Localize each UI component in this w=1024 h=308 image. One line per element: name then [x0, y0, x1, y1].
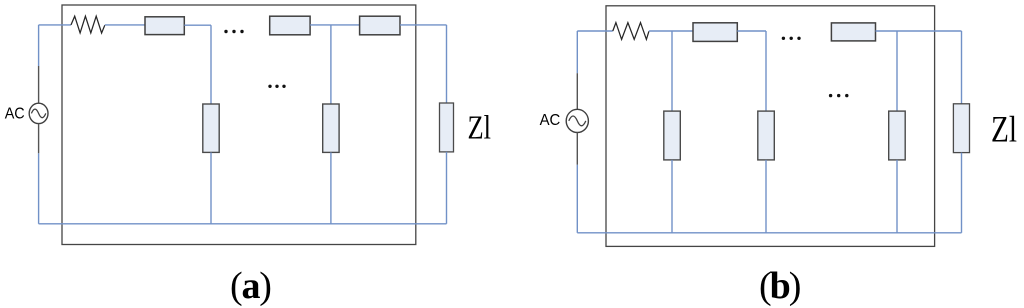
shunt impedance Zs5 (b): [889, 111, 906, 160]
svg-text:(b): (b): [759, 265, 800, 307]
wire: block Z4 to node 2 (b): [737, 30, 766, 32]
wire: load to bottom rail (b): [961, 153, 963, 233]
series impedance Z4 (b): [693, 23, 737, 42]
wire: left vertical top segment (b): [576, 31, 578, 73]
wire: bottom rail (a): [39, 223, 447, 225]
AC source V2 lead lower (b): [576, 133, 578, 165]
load Zl rectangle (b): [953, 104, 969, 153]
shunt impedance Zs4 (b): [758, 111, 775, 160]
wire: block Z1 to node 1 (a): [184, 24, 211, 26]
AC source V1 circle (a): [29, 103, 48, 123]
wire: shunt Zs1 to bottom rail (a): [210, 152, 212, 223]
wire: shunt Zs5 to bottom rail (b): [896, 160, 898, 233]
svg-text:Zl: Zl: [991, 109, 1017, 150]
AC source V2 sine wave (b): [569, 116, 586, 126]
series impedance Z2 (a): [270, 16, 310, 35]
wire: node 1 down to shunt Zs3 (b): [671, 31, 673, 111]
wire: top rail from source to resistor (b): [577, 30, 613, 32]
wire: right vertical to load (b): [961, 31, 963, 104]
ellipsis dots middle (b): [829, 94, 849, 97]
outer box (a): [62, 5, 416, 245]
AC source V1 lead lower (a): [38, 124, 40, 154]
wire: block Z2 through node 2 to block Z3 (a): [310, 24, 360, 26]
ellipsis dots top (a): [224, 30, 243, 33]
series impedance Z3 (a): [360, 16, 400, 35]
wire: node 3 down to shunt Zs5 (b): [896, 31, 898, 111]
wire: left vertical bottom segment (b): [576, 165, 578, 233]
AC source V1 sine wave (a): [31, 109, 45, 118]
wire: top rail from source to resistor (a): [39, 24, 71, 26]
series impedance Z1 (a): [145, 17, 184, 35]
wire: load to bottom rail (a): [446, 152, 448, 224]
wire: node 2 down to shunt Zs4 (b): [765, 31, 767, 111]
svg-text:(a): (a): [230, 265, 271, 307]
AC source V2 lead upper (b): [576, 73, 578, 109]
wire: resistor to block Z1 (a): [105, 24, 145, 26]
svg-text:Zl: Zl: [468, 109, 492, 146]
AC source V1 lead upper (a): [38, 66, 40, 103]
wire: shunt Zs2 to bottom rail (a): [330, 152, 332, 223]
wire: resistor through node 1 to block Z4 (b): [649, 30, 693, 32]
wire: right vertical to load (a): [446, 25, 448, 103]
wire: node 2 down to shunt Zs2 (a): [330, 25, 332, 104]
resistor R2 zigzag (b): [613, 23, 649, 40]
wire: shunt Zs4 to bottom rail (b): [765, 160, 767, 233]
shunt impedance Zs1 (a): [203, 104, 219, 152]
shunt impedance Zs2 (a): [323, 104, 339, 152]
wire: bottom rail (b): [577, 232, 961, 234]
wire: shunt Zs3 to bottom rail (b): [671, 160, 673, 233]
shunt impedance Zs3 (b): [664, 111, 681, 160]
resistor R1 zigzag (a): [71, 16, 105, 33]
wire: block Z3 to top-right corner (a): [400, 24, 447, 26]
AC source V2 circle (b): [566, 109, 588, 132]
wire: node 1 down to shunt Zs1 (a): [210, 25, 212, 104]
svg-text:AC: AC: [5, 105, 25, 122]
ellipsis dots top (b): [782, 37, 801, 40]
wire: left vertical bottom segment (a): [38, 153, 40, 224]
wire: left vertical top segment (a): [38, 25, 40, 66]
outer box (b): [606, 6, 935, 247]
svg-text:AC: AC: [540, 112, 561, 129]
series impedance Z5 (b): [831, 23, 875, 41]
load Zl rectangle (a): [440, 103, 454, 152]
wire: block Z5 through node 3 to top-right corner (b): [876, 30, 962, 32]
ellipsis dots middle (a): [268, 85, 285, 88]
